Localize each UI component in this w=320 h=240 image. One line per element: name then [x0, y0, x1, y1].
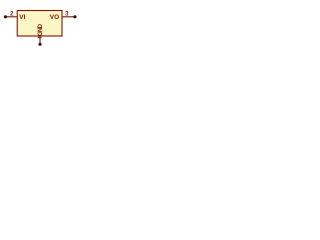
pin 2 wire (VI, left) [6, 16, 18, 18]
pin 1 wire (GND, bottom) [39, 36, 41, 44]
pin 1 end dot [38, 43, 41, 46]
svg-text:VO: VO [50, 14, 59, 21]
pin 3 end dot [73, 15, 76, 18]
regulator body U1 [17, 11, 62, 37]
svg-text:2: 2 [10, 10, 14, 17]
pin 3 wire (VO, right) [63, 16, 75, 18]
pin 2 end dot [4, 15, 7, 18]
svg-text:VI: VI [19, 14, 25, 21]
svg-text:GND: GND [38, 23, 44, 36]
pin 1 number (rotated) [38, 36, 42, 38]
svg-text:3: 3 [65, 10, 69, 17]
